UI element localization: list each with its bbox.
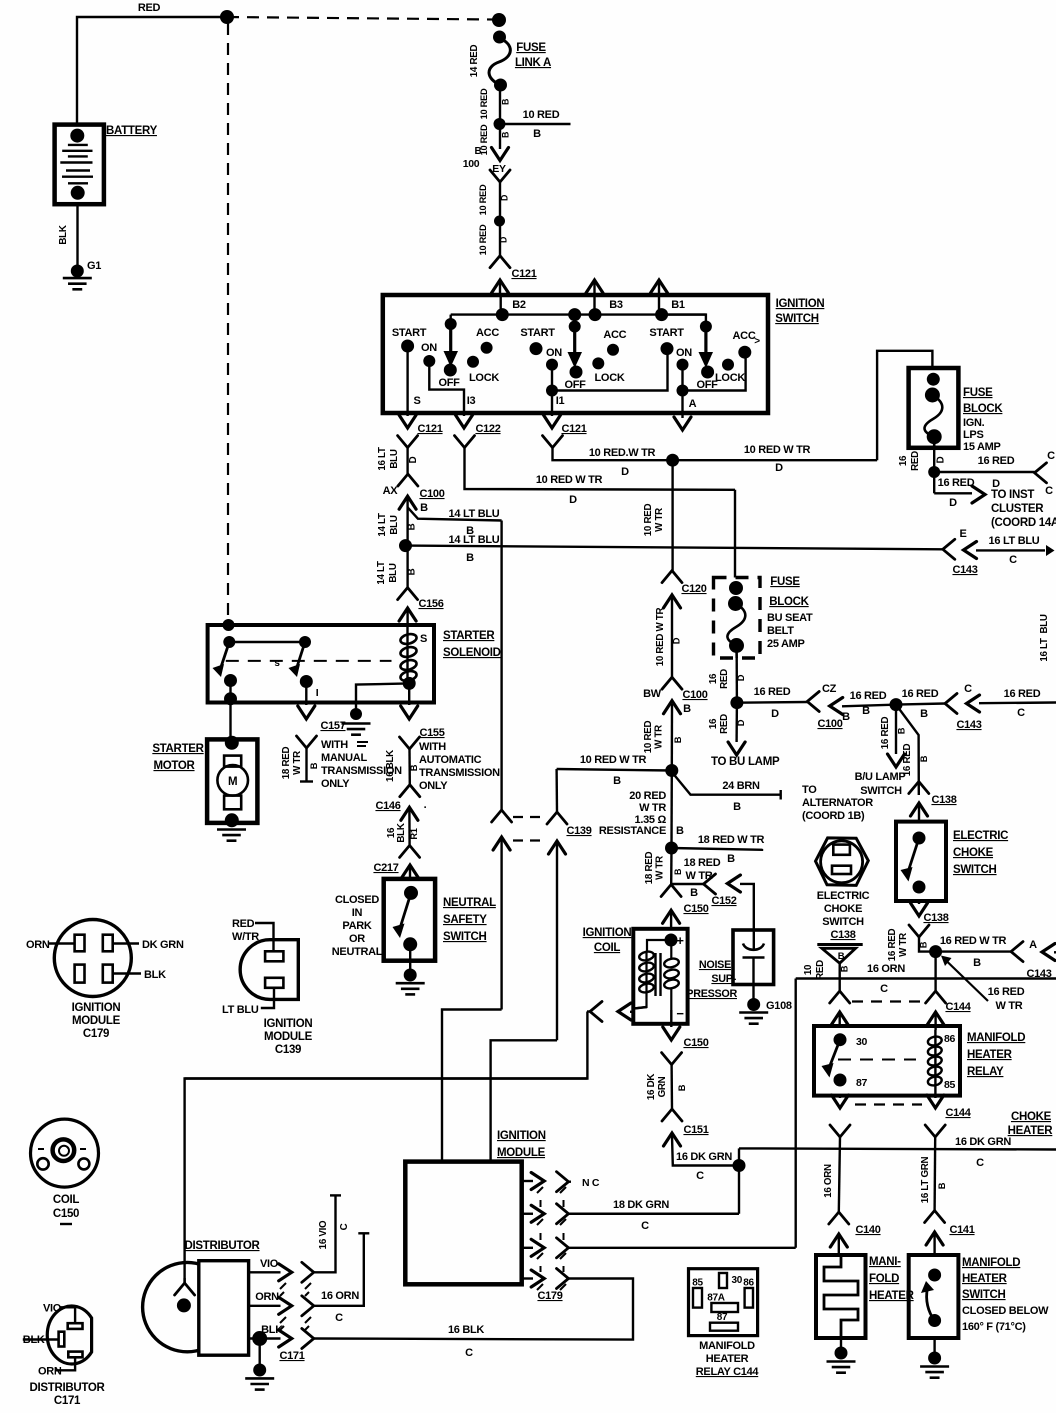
connector C146 arrow bbox=[401, 807, 418, 845]
svg-text:16 RED: 16 RED bbox=[902, 688, 939, 700]
wire 14 LT BLU upper drop bbox=[500, 521, 502, 811]
label 16 LT BLU D bbox=[377, 447, 419, 471]
svg-text:18 RED: 18 RED bbox=[684, 857, 721, 869]
junction dot 10 RED tap bbox=[494, 118, 506, 130]
wire fuse block feed bbox=[877, 351, 932, 460]
svg-text:C144: C144 bbox=[945, 1001, 971, 1013]
electric choke switch contacts bbox=[901, 832, 926, 894]
label N C bbox=[582, 1177, 600, 1189]
switch 3 feed bbox=[662, 315, 715, 379]
svg-text:+: + bbox=[676, 933, 684, 948]
svg-text:B: B bbox=[466, 552, 474, 564]
svg-text:BLU: BLU bbox=[389, 515, 400, 534]
label 16 ORN distributor bbox=[321, 1290, 359, 1324]
wire 16 ORN horizontal bbox=[796, 977, 1056, 979]
svg-text:CLUSTER: CLUSTER bbox=[991, 503, 1044, 515]
label IGN LPS 15 AMP bbox=[963, 417, 1001, 453]
svg-text:ONLY: ONLY bbox=[321, 778, 350, 790]
svg-text:>: > bbox=[754, 336, 760, 347]
wire choke switch to junction bbox=[919, 937, 936, 952]
junction dot solenoid top bbox=[223, 619, 235, 631]
label WITH AUTOMATIC TRANSMISSION ONLY bbox=[419, 741, 500, 792]
svg-text:RED: RED bbox=[138, 2, 161, 14]
label IGNITION COIL bbox=[583, 927, 632, 954]
label B 100 bbox=[463, 146, 482, 170]
battery BATTERY bbox=[55, 125, 104, 205]
svg-text:C100: C100 bbox=[817, 718, 842, 730]
connector C179 fork 3 bbox=[557, 1238, 569, 1258]
connector coil neg fork bbox=[587, 1002, 602, 1022]
wire 14 LT BLU to C156 bbox=[406, 546, 408, 588]
svg-text:C150: C150 bbox=[53, 1208, 79, 1220]
connector C100 BW fork bbox=[662, 677, 682, 689]
svg-text:14 LT: 14 LT bbox=[377, 513, 388, 537]
svg-text:86: 86 bbox=[944, 1033, 956, 1045]
node B2 bbox=[496, 308, 509, 321]
label B/U LAMP SWITCH bbox=[855, 771, 906, 797]
svg-text:C: C bbox=[964, 683, 972, 695]
label DK GRN pin bbox=[142, 939, 184, 951]
label FUSE BLOCK BU bbox=[769, 576, 809, 608]
label OFF 2 bbox=[564, 379, 586, 391]
svg-text:16: 16 bbox=[708, 718, 719, 729]
svg-text:30: 30 bbox=[732, 1275, 743, 1286]
svg-text:IGNITION: IGNITION bbox=[583, 927, 632, 939]
label 10 RED B choke bbox=[803, 960, 850, 980]
svg-text:C138: C138 bbox=[830, 929, 855, 941]
junction dot battery feed bbox=[220, 10, 234, 24]
contact ACC 3 bbox=[733, 330, 761, 359]
relay coil bbox=[927, 1030, 942, 1096]
contact ON 2 bbox=[546, 347, 562, 371]
connector C179 fork 2 bbox=[557, 1204, 569, 1224]
label A bbox=[689, 398, 697, 410]
connector C121 S fork bbox=[398, 436, 418, 448]
label C120 bbox=[681, 583, 706, 595]
svg-text:IGNITION: IGNITION bbox=[776, 298, 825, 310]
svg-text:C179: C179 bbox=[537, 1290, 562, 1302]
wire manifold heater switch ground bbox=[933, 1338, 935, 1357]
wire 16 RED D to C143 right bbox=[934, 471, 1034, 473]
svg-text:30: 30 bbox=[856, 1036, 868, 1048]
svg-text:16 BLK: 16 BLK bbox=[448, 1324, 484, 1336]
svg-text:C: C bbox=[641, 1220, 649, 1232]
svg-text:SWITCH: SWITCH bbox=[775, 313, 819, 325]
label TO ALTERNATOR COORD 1B bbox=[802, 784, 873, 822]
junction dot choke out bbox=[929, 945, 942, 958]
svg-text:MODULE: MODULE bbox=[497, 1147, 546, 1159]
svg-text:RESISTANCE: RESISTANCE bbox=[599, 825, 666, 837]
connector C171 fork BLK bbox=[302, 1329, 314, 1349]
svg-text:N C: N C bbox=[582, 1177, 600, 1189]
svg-text:MANUAL: MANUAL bbox=[321, 752, 367, 764]
svg-text:W TR: W TR bbox=[654, 508, 665, 532]
svg-text:ELECTRIC: ELECTRIC bbox=[953, 830, 1008, 842]
dashes C144 bottom bbox=[855, 1103, 922, 1105]
connector C121 female fork bbox=[490, 256, 510, 268]
svg-text:C121: C121 bbox=[417, 423, 442, 435]
label B3 bbox=[609, 299, 623, 311]
connector C143 A arrow bbox=[1042, 944, 1056, 961]
svg-text:10 RED: 10 RED bbox=[523, 109, 560, 121]
label 16 ORN right bbox=[867, 963, 905, 995]
contact ON 3 bbox=[676, 347, 692, 371]
svg-text:OFF: OFF bbox=[564, 379, 586, 391]
connector C155 fork bbox=[400, 737, 420, 749]
svg-text:C120: C120 bbox=[681, 583, 706, 595]
label C143 A bbox=[1026, 968, 1051, 980]
coil core bbox=[656, 953, 661, 996]
svg-text:D: D bbox=[621, 466, 629, 478]
solenoid switch 1 bbox=[213, 636, 238, 687]
svg-text:VIO: VIO bbox=[260, 1258, 279, 1270]
wire 18 DK GRN bbox=[569, 1213, 740, 1215]
wire coil negative out left bbox=[634, 1007, 647, 1009]
solenoid crossbar bbox=[229, 641, 305, 643]
connector C152 fork bbox=[704, 874, 716, 894]
svg-text:BLOCK: BLOCK bbox=[963, 403, 1003, 415]
svg-text:(COORD 1B): (COORD 1B) bbox=[802, 810, 865, 822]
svg-text:FUSE: FUSE bbox=[516, 42, 546, 54]
connector BU lamp arrow bbox=[728, 742, 745, 755]
svg-text:C138: C138 bbox=[931, 794, 956, 806]
manifold heater switch box bbox=[909, 1255, 959, 1338]
label G108 bbox=[766, 1000, 792, 1012]
label C157 bbox=[320, 720, 345, 732]
svg-text:SWITCH: SWITCH bbox=[953, 864, 997, 876]
wire module input 1 bbox=[442, 1010, 502, 1161]
wire 16 DK GRN segment bbox=[670, 1065, 673, 1109]
connector C139 wire2 arrow bbox=[549, 841, 566, 1040]
svg-text:16 RED: 16 RED bbox=[978, 455, 1015, 467]
label C mid bbox=[964, 683, 972, 695]
wire 16 LT BLU segment bbox=[406, 448, 408, 474]
ground starter motor bbox=[217, 830, 246, 841]
svg-text:C143: C143 bbox=[956, 719, 981, 731]
label 16 ORN relay v bbox=[823, 1164, 834, 1198]
label 16 BLK B bbox=[385, 750, 419, 782]
label C121 S bbox=[417, 423, 442, 435]
label 16 RED CZ right bbox=[902, 688, 939, 720]
wire 16 ORN relay drop bbox=[839, 1137, 840, 1212]
label relay pins bbox=[692, 1275, 754, 1323]
svg-text:FUSE: FUSE bbox=[963, 387, 993, 399]
svg-text:B: B bbox=[407, 523, 418, 530]
svg-text:CHOKE: CHOKE bbox=[824, 903, 862, 915]
connector C151 top fork bbox=[662, 1053, 682, 1065]
wire 24 BRN tap bbox=[672, 772, 781, 800]
label E bbox=[959, 528, 966, 540]
dashes C144 top bbox=[852, 1000, 924, 1002]
label C139 bbox=[566, 825, 591, 837]
svg-text:OFF: OFF bbox=[438, 377, 460, 389]
svg-text:C: C bbox=[335, 1312, 343, 1324]
contact START 3 bbox=[649, 327, 684, 355]
ignition switch box bbox=[383, 295, 768, 413]
wire C139 wire2 upper bbox=[555, 769, 558, 812]
label 20 RED W TR resistance bbox=[599, 790, 684, 837]
svg-text:87A: 87A bbox=[707, 1293, 725, 1304]
svg-text:IGN.: IGN. bbox=[963, 417, 985, 429]
svg-text:B: B bbox=[676, 825, 684, 837]
wire 16 LT GRN relay drop bbox=[933, 1137, 936, 1211]
svg-text:IGNITION: IGNITION bbox=[72, 1002, 121, 1014]
svg-text:B: B bbox=[613, 775, 621, 787]
svg-text:ON: ON bbox=[676, 347, 692, 359]
svg-text:C143: C143 bbox=[952, 564, 977, 576]
wire ignition switch bus bbox=[451, 313, 706, 315]
svg-text:C100: C100 bbox=[682, 689, 707, 701]
wire 16 BLK bbox=[314, 1279, 633, 1340]
svg-text:HEATER: HEATER bbox=[962, 1273, 1008, 1285]
wire 16 DK GRN long bbox=[739, 1148, 1056, 1149]
svg-text:W TR: W TR bbox=[655, 856, 666, 880]
label 10 RED seg2 bbox=[479, 124, 511, 155]
svg-text:14 LT BLU: 14 LT BLU bbox=[449, 534, 500, 546]
svg-text:B: B bbox=[838, 951, 845, 962]
connector C171 fork VIO bbox=[302, 1262, 314, 1282]
wire 10 RED to connector 100/EY bbox=[499, 124, 501, 149]
wire 16 RED to CZ bbox=[737, 701, 807, 704]
svg-text:W TR: W TR bbox=[898, 933, 909, 957]
fuse block BU SEAT dashed box bbox=[714, 578, 761, 659]
label RED bbox=[138, 2, 161, 14]
label 16 RED D BU bbox=[708, 669, 746, 689]
svg-text:16 VIO: 16 VIO bbox=[318, 1220, 329, 1249]
connector C143 mid fork bbox=[945, 694, 957, 714]
wire DK GRN pin bbox=[113, 942, 139, 944]
label IGNITION SWITCH bbox=[775, 298, 824, 325]
wire 18 RED W TR stub bbox=[300, 748, 313, 782]
label 16 RED B drop bbox=[880, 717, 907, 750]
wire choke switch out bbox=[918, 901, 920, 904]
svg-text:G1: G1 bbox=[87, 260, 101, 272]
wire 10 RED D to C121 bbox=[499, 221, 501, 256]
connector C217 arrow bbox=[402, 865, 419, 879]
connector fork right edge top bbox=[1035, 463, 1047, 483]
svg-text:C121: C121 bbox=[511, 268, 536, 280]
switch 1 feed bbox=[444, 315, 459, 377]
label 14 LT BLU upper v bbox=[377, 513, 418, 537]
wire 16 BLK segment bbox=[408, 749, 411, 785]
wire dashed feed to fuse link bbox=[227, 17, 494, 20]
label C144 top bbox=[945, 1001, 971, 1013]
fuse IGN LPS bbox=[925, 373, 943, 448]
connector C121 male arrow B2 bbox=[492, 280, 509, 296]
contact LOCK 2 bbox=[592, 357, 625, 384]
label BW bbox=[643, 688, 662, 700]
label ORN distributor bbox=[255, 1291, 279, 1303]
svg-text:BLK: BLK bbox=[396, 823, 407, 842]
wire BLK pin bbox=[113, 972, 141, 974]
manifold heater switch contacts bbox=[921, 1269, 941, 1328]
label STARTER MOTOR bbox=[152, 743, 204, 772]
svg-text:W/TR: W/TR bbox=[232, 931, 259, 943]
wire B1 feed into box bbox=[658, 296, 660, 315]
starter motor M bbox=[217, 736, 248, 828]
connector CZ fork bbox=[807, 692, 819, 712]
connector distributor fork bbox=[175, 1283, 195, 1295]
label C121 top bbox=[511, 268, 536, 280]
connector C143 mid arrow bbox=[967, 695, 1056, 712]
label 16 BLK R1 bbox=[386, 823, 419, 842]
svg-text:10 RED: 10 RED bbox=[643, 504, 654, 537]
svg-text:ONLY: ONLY bbox=[419, 780, 448, 792]
label B B CZ bbox=[842, 690, 887, 723]
label C138 top bbox=[931, 794, 956, 806]
svg-text:ELECTRIC: ELECTRIC bbox=[817, 890, 870, 902]
junction dot 14 LT BLU bbox=[399, 539, 412, 552]
svg-text:COIL: COIL bbox=[594, 942, 621, 954]
wire 14 LT BLU long bbox=[406, 546, 943, 550]
svg-text:16 RED: 16 RED bbox=[754, 686, 791, 698]
label OFF 3 bbox=[696, 379, 718, 391]
distributor rotor dot bbox=[177, 1298, 191, 1312]
svg-text:SWITCH: SWITCH bbox=[822, 916, 864, 928]
starter motor box bbox=[207, 739, 257, 823]
label MANIFOLD HEATER RELAY C144 caption bbox=[696, 1340, 760, 1378]
svg-text:COIL: COIL bbox=[53, 1194, 80, 1206]
solenoid switch 2 bbox=[289, 636, 313, 688]
label 16 DK GRN v bbox=[646, 1074, 687, 1100]
svg-text:STARTER: STARTER bbox=[152, 743, 204, 755]
svg-text:C: C bbox=[1017, 707, 1025, 719]
svg-text:ORN: ORN bbox=[38, 1366, 62, 1378]
svg-text:FUSE: FUSE bbox=[770, 576, 800, 588]
node B3 bbox=[568, 308, 601, 321]
svg-text:C: C bbox=[976, 1157, 984, 1169]
wire battery positive feed (RED) bbox=[77, 17, 227, 125]
electric choke switch box bbox=[896, 822, 946, 901]
svg-text:SWITCH: SWITCH bbox=[443, 931, 487, 943]
contact ACC 2 bbox=[603, 329, 626, 356]
label CLOSED IN PARK OR NEUTRAL bbox=[332, 894, 383, 958]
svg-text:B: B bbox=[475, 146, 482, 157]
relay contact 30 bbox=[834, 1033, 868, 1048]
connector picture COIL C150 bbox=[31, 1119, 99, 1187]
connector C150 fork bbox=[661, 885, 681, 897]
label 18 RED W TR right bbox=[698, 834, 765, 865]
svg-text:B2: B2 bbox=[512, 299, 526, 311]
wire relay 86 feed bbox=[934, 952, 936, 991]
connector C138 top fork bbox=[909, 782, 929, 794]
svg-text:10 RED: 10 RED bbox=[643, 721, 654, 754]
svg-text:D: D bbox=[499, 237, 509, 243]
svg-text:B: B bbox=[683, 703, 691, 715]
wire ORN bbox=[249, 1297, 292, 1314]
connector C156 fork bbox=[398, 588, 418, 600]
label 10 RED seg3 bbox=[478, 184, 510, 215]
label 14 LT BLU lower v bbox=[376, 561, 418, 585]
label IGNITION MODULE C179 caption bbox=[72, 1002, 121, 1040]
wire fuse link to tap bbox=[499, 85, 501, 124]
junction dot 16 DK GRN bbox=[733, 1159, 746, 1172]
module output 3 bbox=[522, 1239, 545, 1256]
wire 10 RED W TR (C122 branch) bbox=[465, 448, 736, 490]
svg-text:TO BU LAMP: TO BU LAMP bbox=[711, 756, 780, 768]
label C152 bbox=[711, 895, 736, 907]
connector C140 fork bbox=[829, 1212, 849, 1224]
svg-text:FOLD: FOLD bbox=[869, 1273, 899, 1285]
svg-text:D: D bbox=[775, 462, 783, 474]
wire 16 RED WTR to C143 A bbox=[936, 950, 1011, 952]
svg-text:10: 10 bbox=[803, 964, 814, 975]
svg-text:C179: C179 bbox=[83, 1028, 109, 1040]
label 10 RED seg1 bbox=[479, 88, 511, 119]
label 16 LT BLU vertical right bbox=[1039, 614, 1050, 662]
svg-text:16 RED: 16 RED bbox=[938, 477, 975, 489]
label 16 RED fuse out bbox=[898, 451, 947, 471]
label C143 mid bbox=[956, 719, 981, 731]
connector C100 fork bbox=[398, 474, 418, 486]
label 10 RED W TR I1 bbox=[589, 447, 656, 478]
wire LT BLU pin bbox=[261, 988, 274, 1008]
connector C179 fork 1 bbox=[557, 1172, 572, 1192]
connector 100/EY female fork bbox=[490, 170, 510, 182]
wire coil to ground bbox=[356, 683, 409, 712]
label RED WTR pin bbox=[232, 918, 259, 943]
label 10 RED WTR upper v bbox=[643, 504, 665, 537]
svg-text:ACC: ACC bbox=[733, 330, 756, 342]
wire NSS to ground bbox=[409, 944, 411, 973]
connector A arrow bbox=[674, 413, 691, 430]
wire B3 feed into box bbox=[593, 296, 595, 315]
svg-text:ACC: ACC bbox=[476, 327, 499, 339]
ground manifold heater bbox=[827, 1347, 856, 1373]
noise suppressor box bbox=[733, 930, 774, 985]
wire relay 85 out bbox=[934, 1096, 936, 1098]
svg-text:87: 87 bbox=[856, 1077, 868, 1089]
connector C171 fork ORN bbox=[302, 1296, 314, 1316]
label FUSE BLOCK bbox=[963, 387, 1003, 415]
connector C141 fork bbox=[925, 1211, 945, 1223]
svg-text:HEATER: HEATER bbox=[706, 1353, 749, 1365]
label 24 BRN B bbox=[722, 780, 760, 813]
svg-text:C151: C151 bbox=[683, 1124, 708, 1136]
label BLK pin bbox=[144, 969, 166, 981]
svg-text:C100: C100 bbox=[419, 488, 444, 500]
junction dot BLK bbox=[252, 1331, 267, 1346]
svg-text:18 RED: 18 RED bbox=[644, 852, 655, 885]
label C144 bottom bbox=[945, 1107, 971, 1119]
svg-text:B: B bbox=[690, 887, 698, 899]
label FUSE LINK A bbox=[515, 42, 551, 69]
wire coil negative to distributor bbox=[185, 1012, 588, 1284]
module output 1 bbox=[522, 1173, 545, 1190]
svg-text:B: B bbox=[677, 1084, 687, 1091]
wire BLK pin C171 bbox=[23, 1338, 59, 1340]
svg-text:C150: C150 bbox=[683, 903, 708, 915]
svg-text:10 RED: 10 RED bbox=[478, 184, 488, 215]
svg-text:B: B bbox=[673, 869, 683, 875]
label C146 bbox=[375, 799, 426, 812]
svg-text:RED: RED bbox=[910, 451, 921, 471]
svg-text:ON: ON bbox=[421, 342, 437, 354]
connector arrow B1 bbox=[651, 280, 668, 296]
connector C100 arrow bbox=[399, 496, 416, 545]
label IGNITION MODULE bbox=[497, 1130, 546, 1159]
svg-text:C144: C144 bbox=[945, 1107, 971, 1119]
svg-text:18 RED: 18 RED bbox=[281, 747, 292, 780]
contact ON 1 bbox=[421, 342, 437, 367]
svg-text:D: D bbox=[949, 497, 957, 509]
svg-text:B: B bbox=[409, 764, 419, 771]
fuse block IGN LPS box bbox=[909, 368, 959, 448]
junction dot 18 RED WTR bbox=[665, 842, 678, 855]
svg-text:C138: C138 bbox=[923, 912, 948, 924]
svg-text:16 DK GRN: 16 DK GRN bbox=[955, 1136, 1011, 1148]
dashes C139 boundary bbox=[513, 817, 547, 841]
